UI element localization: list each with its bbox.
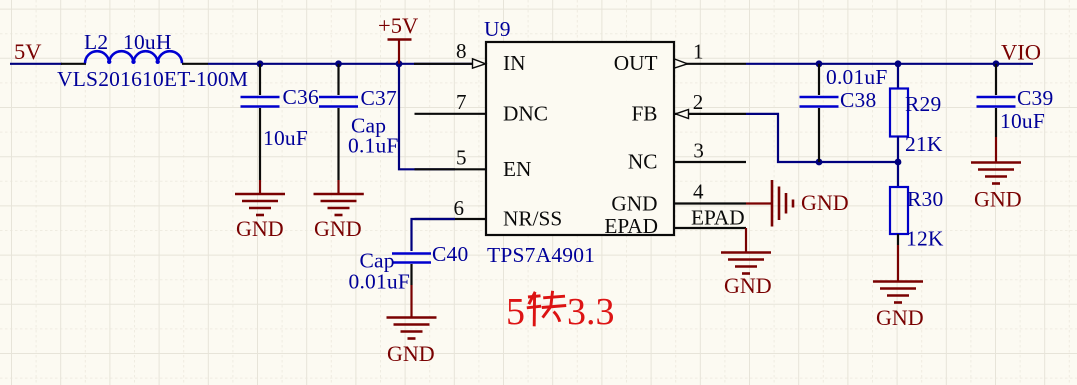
ground GND at C37 bbox=[314, 180, 364, 241]
svg-text:NC: NC bbox=[628, 150, 658, 174]
svg-text:12K: 12K bbox=[906, 227, 944, 251]
svg-text:GND: GND bbox=[876, 305, 924, 330]
pin 8 IN bbox=[414, 39, 525, 75]
junction dot C38 bottom bbox=[816, 159, 823, 166]
svg-text:0.1uF: 0.1uF bbox=[348, 134, 399, 158]
hanzi zhuan (drawn strokes) bbox=[527, 291, 566, 327]
inductor L2 bbox=[61, 51, 208, 64]
pin 6 NR/SS bbox=[415, 196, 563, 231]
ground GND at C40 bbox=[387, 303, 437, 366]
wire OUT rail bbox=[746, 63, 1033, 65]
text 5转3.3 bbox=[506, 291, 615, 333]
svg-text:VIO: VIO bbox=[1001, 40, 1041, 65]
junction dot R29/R30 bbox=[895, 159, 902, 166]
svg-text:10uF: 10uF bbox=[263, 126, 308, 150]
junction dot at C36 bbox=[257, 60, 264, 67]
svg-text:U9: U9 bbox=[484, 17, 511, 41]
svg-text:0.01uF: 0.01uF bbox=[826, 65, 888, 89]
power port +5V bbox=[378, 13, 418, 64]
svg-text:GND: GND bbox=[801, 190, 849, 215]
pin 4 GND bbox=[611, 179, 746, 215]
svg-text:0.01uF: 0.01uF bbox=[349, 270, 411, 294]
wire FB net bbox=[746, 114, 898, 162]
wire 5V to L2 bbox=[10, 63, 62, 65]
svg-text:1: 1 bbox=[693, 40, 704, 64]
resistor R30 bbox=[890, 162, 908, 267]
svg-text:VLS201610ET-100M: VLS201610ET-100M bbox=[57, 67, 248, 91]
svg-text:GND: GND bbox=[974, 187, 1022, 212]
pin 3 NC bbox=[628, 138, 746, 173]
svg-text:C38: C38 bbox=[840, 88, 876, 112]
pin EPAD bbox=[604, 206, 746, 239]
svg-text:2: 2 bbox=[693, 90, 704, 114]
svg-text:R30: R30 bbox=[907, 187, 943, 211]
svg-text:NR/SS: NR/SS bbox=[503, 207, 562, 231]
svg-text:EPAD: EPAD bbox=[604, 214, 658, 238]
svg-text:10uH: 10uH bbox=[123, 30, 172, 54]
svg-text:3: 3 bbox=[693, 138, 704, 162]
svg-text:C40: C40 bbox=[432, 242, 468, 266]
svg-text:6: 6 bbox=[454, 196, 465, 220]
svg-text:R29: R29 bbox=[905, 92, 941, 116]
svg-text:+5V: +5V bbox=[378, 13, 418, 38]
svg-text:4: 4 bbox=[693, 179, 704, 203]
svg-text:10uF: 10uF bbox=[1000, 109, 1045, 133]
svg-text:IN: IN bbox=[503, 51, 525, 75]
ground GND at EPAD bbox=[721, 253, 772, 299]
svg-text:DNC: DNC bbox=[503, 101, 548, 125]
svg-text:C37: C37 bbox=[361, 86, 397, 110]
svg-text:GND: GND bbox=[236, 216, 284, 241]
svg-text:GND: GND bbox=[724, 273, 772, 298]
wire EPAD to ground bbox=[745, 228, 747, 252]
svg-text:7: 7 bbox=[456, 90, 467, 114]
svg-text:TPS7A4901: TPS7A4901 bbox=[487, 243, 595, 267]
capacitor C39 bbox=[977, 64, 1016, 137]
junction dot at C37 bbox=[335, 60, 342, 67]
svg-text:EN: EN bbox=[503, 157, 531, 181]
svg-text:C36: C36 bbox=[283, 85, 319, 109]
pin 1 OUT bbox=[614, 40, 746, 76]
ground GND at pin 4 (sideways) bbox=[746, 180, 849, 227]
ground GND at R30 bbox=[873, 267, 924, 330]
capacitor C38 bbox=[800, 64, 839, 162]
svg-text:3.3: 3.3 bbox=[567, 291, 615, 333]
svg-text:GND: GND bbox=[387, 341, 435, 366]
pin 7 DNC bbox=[415, 90, 548, 126]
svg-text:21K: 21K bbox=[905, 132, 943, 156]
wire L2 to U9 pin 8 bbox=[208, 63, 473, 65]
pin 5 EN bbox=[415, 146, 532, 181]
svg-text:GND: GND bbox=[314, 216, 362, 241]
capacitor C36 bbox=[241, 64, 280, 180]
svg-text:8: 8 bbox=[456, 39, 467, 63]
svg-text:5: 5 bbox=[506, 291, 525, 333]
junction dot C39 bbox=[993, 60, 1000, 67]
junction dot R29 top bbox=[895, 60, 902, 67]
wire +5V branch down to EN pin 5 bbox=[399, 64, 455, 170]
svg-text:FB: FB bbox=[631, 101, 657, 125]
wire NR/SS to C40 bbox=[412, 219, 456, 251]
ground GND at C36 bbox=[235, 180, 285, 241]
junction dot C38 top bbox=[816, 60, 823, 67]
svg-text:OUT: OUT bbox=[614, 51, 658, 75]
capacitor C40 bbox=[392, 254, 431, 304]
svg-text:5: 5 bbox=[456, 146, 467, 170]
svg-text:5V: 5V bbox=[14, 39, 42, 64]
ground GND at C39 bbox=[971, 137, 1022, 212]
capacitor C37 bbox=[319, 64, 358, 180]
junction dot at +5V / EN branch bbox=[396, 60, 403, 67]
resistor R29 bbox=[890, 64, 908, 162]
IC U9 body bbox=[486, 42, 674, 235]
pin 2 FB bbox=[631, 90, 746, 126]
svg-text:GND: GND bbox=[611, 191, 657, 215]
svg-text:C39: C39 bbox=[1017, 86, 1053, 110]
svg-text:EPAD: EPAD bbox=[691, 206, 745, 230]
svg-text:L2: L2 bbox=[84, 30, 108, 54]
